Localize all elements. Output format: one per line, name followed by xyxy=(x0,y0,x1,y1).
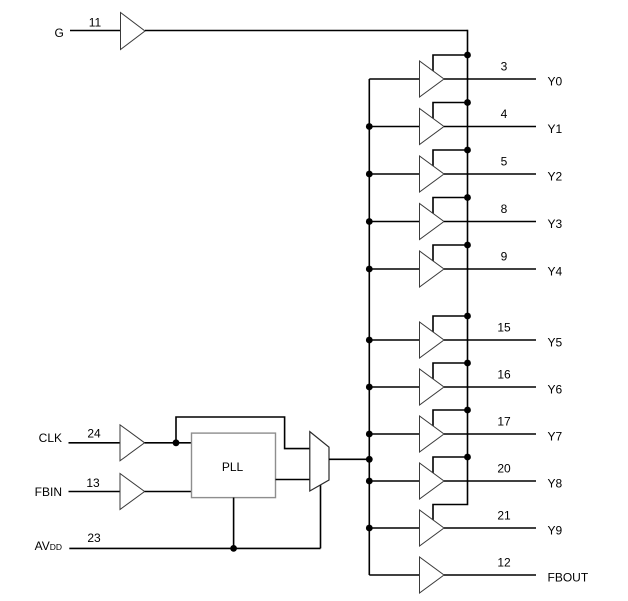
wire output Y1 xyxy=(444,126,536,128)
buffer Y0 xyxy=(420,61,445,97)
wire G buffer output to enable bus (top) xyxy=(145,30,468,32)
wire output Y5 xyxy=(444,339,536,341)
junction input bus / Y3 input xyxy=(366,218,373,225)
junction input bus / Y7 input xyxy=(366,431,373,438)
wire input bus vertical (clock distribution) xyxy=(368,79,370,575)
svg-text:AVDD: AVDD xyxy=(35,539,62,553)
buffer Y8 xyxy=(420,463,445,499)
svg-text:Y2: Y2 xyxy=(548,169,563,183)
wire input to buffer Y7 xyxy=(369,433,419,435)
svg-text:5: 5 xyxy=(501,155,508,169)
svg-text:Y7: Y7 xyxy=(548,429,563,443)
wire enable control for Y8 xyxy=(433,457,468,475)
svg-text:Y1: Y1 xyxy=(548,122,563,136)
wire output Y6 xyxy=(444,386,536,388)
svg-text:Y3: Y3 xyxy=(548,217,563,231)
svg-text:11: 11 xyxy=(89,16,102,30)
svg-text:Y6: Y6 xyxy=(548,382,563,396)
wire CLK input xyxy=(69,442,121,444)
junction enable bus / Y3 control xyxy=(464,194,471,201)
buffer G (enable buffer) xyxy=(121,13,146,50)
wire enable control for Y6 xyxy=(433,363,468,381)
svg-text:FBIN: FBIN xyxy=(35,485,62,499)
junction enable bus / Y4 control xyxy=(464,242,471,249)
wire enable control for Y1 xyxy=(433,103,468,121)
wire input to buffer Y9 xyxy=(369,527,419,529)
buffer Y2 xyxy=(420,156,445,192)
svg-text:Y9: Y9 xyxy=(548,523,563,537)
svg-text:Y4: Y4 xyxy=(548,264,563,278)
wire output FBOUT xyxy=(444,574,536,576)
svg-text:3: 3 xyxy=(501,60,508,74)
junction input bus / mux output xyxy=(366,456,373,463)
junction input bus / Y1 input xyxy=(366,123,373,130)
wire PLL AVDD stub xyxy=(233,498,235,549)
wire output Y9 xyxy=(444,527,536,529)
svg-text:23: 23 xyxy=(87,531,101,545)
junction enable bus / Y0 control xyxy=(464,52,471,59)
svg-text:9: 9 xyxy=(501,250,508,264)
svg-text:16: 16 xyxy=(497,368,511,382)
junction CLK output / bypass xyxy=(173,439,180,446)
junction AVDD / PLL stub xyxy=(230,545,237,552)
wire CLK bypass to mux upper input xyxy=(176,417,310,449)
wire input to buffer Y1 xyxy=(369,126,419,128)
buffer FBOUT xyxy=(420,557,445,593)
svg-text:20: 20 xyxy=(497,462,511,476)
svg-text:Y5: Y5 xyxy=(548,335,563,349)
wire FBIN buffer output into PLL xyxy=(145,491,192,493)
buffer Y7 xyxy=(420,416,445,452)
wire input to buffer Y2 xyxy=(369,173,419,175)
junction enable bus / Y7 control xyxy=(464,407,471,414)
wire enable control for Y0 xyxy=(433,55,468,73)
svg-text:8: 8 xyxy=(501,202,508,216)
svg-text:12: 12 xyxy=(497,556,511,570)
svg-text:FBOUT: FBOUT xyxy=(548,570,589,584)
svg-text:24: 24 xyxy=(87,426,101,440)
mux (PLL bypass select) xyxy=(310,432,329,491)
wire output Y8 xyxy=(444,480,536,482)
svg-text:4: 4 xyxy=(501,107,508,121)
junction input bus / Y5 input xyxy=(366,337,373,344)
svg-text:17: 17 xyxy=(497,415,511,429)
wire enable control for Y7 xyxy=(433,410,468,428)
wire enable bus vertical xyxy=(433,30,468,521)
buffer CLK xyxy=(120,425,145,461)
junction enable bus / Y1 control xyxy=(464,99,471,106)
PLL block U1 xyxy=(192,433,276,498)
junction enable bus / Y5 control xyxy=(464,313,471,320)
buffer Y9 xyxy=(420,510,445,546)
junction input bus / Y9 input xyxy=(366,525,373,532)
wire PLL output to mux lower input xyxy=(276,479,310,481)
junction input bus / Y2 input xyxy=(366,171,373,178)
junction input bus / Y4 input xyxy=(366,266,373,273)
wire enable control for Y5 xyxy=(433,316,468,334)
svg-text:PLL: PLL xyxy=(222,460,244,474)
wire output Y0 xyxy=(444,78,536,80)
wire enable control for Y3 xyxy=(433,198,468,216)
wire mux select from AVDD xyxy=(320,483,322,548)
wire input to buffer Y5 xyxy=(369,339,419,341)
wire mux output to input bus xyxy=(329,458,369,460)
junction enable bus / Y8 control xyxy=(464,454,471,461)
junction input bus / Y8 input xyxy=(366,478,373,485)
svg-text:CLK: CLK xyxy=(39,431,62,445)
wire enable control for Y4 xyxy=(433,245,468,263)
svg-text:Y0: Y0 xyxy=(548,74,563,88)
svg-text:13: 13 xyxy=(86,476,100,490)
wire output Y4 xyxy=(444,268,536,270)
svg-text:Y8: Y8 xyxy=(548,476,563,490)
junction enable bus / Y2 control xyxy=(464,147,471,154)
wire enable control for Y2 xyxy=(433,150,468,168)
wire output Y2 xyxy=(444,173,536,175)
buffer FBIN xyxy=(120,474,145,510)
buffer Y4 xyxy=(420,251,445,287)
wire input to buffer Y0 xyxy=(369,78,419,80)
wire G input xyxy=(70,30,121,32)
wire CLK buffer output into PLL xyxy=(145,442,192,444)
wire AVDD xyxy=(69,547,320,549)
wire output Y7 xyxy=(444,433,536,435)
wire input to buffer Y6 xyxy=(369,386,419,388)
wire input to buffer Y3 xyxy=(369,221,419,223)
wire input to buffer Y4 xyxy=(369,268,419,270)
wire output Y3 xyxy=(444,221,536,223)
wire input to buffer FBOUT xyxy=(369,574,419,576)
buffer Y6 xyxy=(420,369,445,405)
svg-text:G: G xyxy=(55,26,64,40)
wire input to buffer Y8 xyxy=(369,480,419,482)
junction enable bus / Y6 control xyxy=(464,360,471,367)
svg-text:15: 15 xyxy=(497,321,511,335)
svg-text:21: 21 xyxy=(497,509,511,523)
wire FBIN input xyxy=(69,491,121,493)
buffer Y1 xyxy=(420,109,445,145)
buffer Y3 xyxy=(420,204,445,240)
junction input bus / Y6 input xyxy=(366,384,373,391)
buffer Y5 xyxy=(420,322,445,358)
